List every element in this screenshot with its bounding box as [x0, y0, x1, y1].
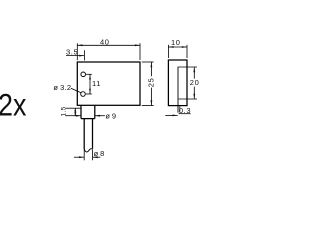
svg-text:10: 10: [171, 38, 181, 47]
svg-text:2x: 2x: [0, 87, 26, 123]
front view plate outline: [77, 62, 140, 105]
svg-text:40: 40: [100, 37, 110, 46]
collar ø9 outline: [81, 105, 95, 118]
dimension 40 top: [77, 43, 140, 60]
quantity label 2x: [0, 87, 26, 123]
svg-text:11: 11: [92, 79, 101, 88]
svg-text:20: 20: [190, 78, 200, 87]
dimension 25 right of front view: [142, 62, 154, 106]
hole C1 upper ø3.2: [81, 72, 86, 77]
dimension 1.5 collar step: [66, 108, 82, 116]
svg-text:1.5: 1.5: [60, 106, 67, 116]
dimension 3.5: [66, 50, 84, 60]
svg-text:25: 25: [146, 78, 155, 88]
svg-text:0.3: 0.3: [179, 106, 191, 115]
svg-text:ø 3.2: ø 3.2: [53, 83, 71, 92]
dimension 20 slit depth: [179, 67, 198, 99]
dimension 11 between holes: [86, 74, 92, 94]
dimension ø9 collar: [66, 115, 105, 117]
shaft ø8 outline with break line: [84, 119, 92, 152]
side view outline: [168, 60, 187, 106]
label ø3.2 with leader: [71, 88, 81, 92]
side view slit line: [177, 67, 179, 113]
svg-text:ø 9: ø 9: [105, 112, 116, 121]
svg-text:ø 8: ø 8: [94, 149, 105, 158]
hole C2 lower ø3.2: [81, 92, 86, 97]
dimension 0.3 slit width: [165, 106, 190, 115]
dimension 10 side width: [168, 45, 187, 58]
dimension ø8 shaft: [74, 150, 100, 161]
svg-text:3.5: 3.5: [66, 48, 78, 57]
